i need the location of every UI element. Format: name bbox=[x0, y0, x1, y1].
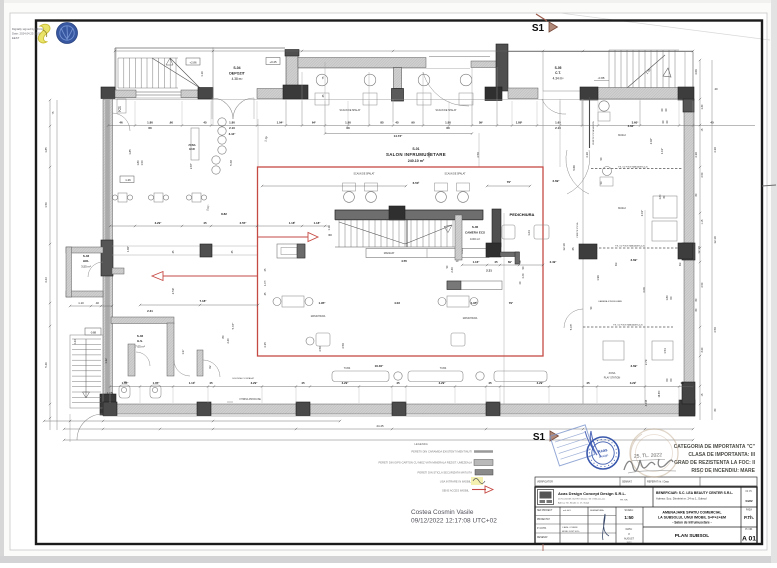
svg-text:4.50: 4.50 bbox=[713, 327, 717, 333]
svg-text:J17/xxx/2018; CUI RO 32xxxx; T: J17/xxx/2018; CUI RO 32xxxx; Tel: 0740-x… bbox=[558, 499, 606, 501]
svg-text:79°: 79° bbox=[509, 301, 514, 305]
svg-text:S-03: S-03 bbox=[83, 254, 90, 258]
svg-text:45: 45 bbox=[586, 381, 590, 385]
svg-text:1.80: 1.80 bbox=[229, 121, 235, 125]
svg-text:LA SUBSOLUL UNUI IMOBIL S+P+2+: LA SUBSOLUL UNUI IMOBIL S+P+2+EM bbox=[658, 516, 726, 520]
svg-text:RISC DE INCENDIU: MARE: RISC DE INCENDIU: MARE bbox=[691, 468, 755, 474]
svg-text:2.10: 2.10 bbox=[555, 126, 561, 130]
svg-text:4.50: 4.50 bbox=[341, 343, 345, 349]
svg-text:81¹: 81¹ bbox=[614, 262, 618, 266]
svg-text:PERETE STICLA MATUITA: PERETE STICLA MATUITA bbox=[592, 121, 595, 145]
svg-text:CATEGORIA DE IMPORTANTA "C": CATEGORIA DE IMPORTANTA "C" bbox=[674, 444, 756, 450]
svg-text:45: 45 bbox=[494, 260, 498, 264]
svg-text:+2.86: +2.86 bbox=[189, 61, 197, 65]
svg-text:SEMNAT.: SEMNAT. bbox=[622, 481, 633, 484]
svg-text:240.10 m²: 240.10 m² bbox=[408, 159, 425, 163]
svg-text:4.35: 4.35 bbox=[263, 342, 267, 348]
svg-text:P. COTR.: P. COTR. bbox=[537, 528, 547, 530]
svg-text:2.55°: 2.55° bbox=[240, 221, 248, 225]
svg-text:PERETII DIN CARAMIDA EXISTENTI: PERETII DIN CARAMIDA EXISTENTI MENTINUTI bbox=[411, 450, 472, 454]
svg-text:LEGENDA: LEGENDA bbox=[414, 442, 428, 446]
svg-text:2.31: 2.31 bbox=[147, 309, 153, 313]
svg-text:4.34 m²: 4.34 m² bbox=[553, 77, 564, 81]
svg-text:PROIECTAT: PROIECTAT bbox=[537, 518, 550, 521]
svg-text:4.03: 4.03 bbox=[394, 301, 400, 305]
svg-text:3.29¹: 3.29¹ bbox=[630, 381, 637, 385]
svg-text:04/22: 04/22 bbox=[746, 499, 753, 503]
svg-text:REFERAT Nr. / Data: REFERAT Nr. / Data bbox=[647, 481, 669, 484]
svg-text:2.67°: 2.67° bbox=[189, 163, 193, 169]
svg-text:USA INTRARE IN IMOBIL: USA INTRARE IN IMOBIL bbox=[440, 480, 472, 484]
svg-text:SCAUN DE SPALAT: SCAUN DE SPALAT bbox=[436, 109, 458, 112]
svg-text:1.13¹: 1.13¹ bbox=[189, 381, 196, 385]
svg-text:45: 45 bbox=[203, 221, 207, 225]
svg-text:1.05°: 1.05° bbox=[153, 381, 161, 385]
svg-text:45: 45 bbox=[488, 381, 492, 385]
svg-text:3.29°: 3.29° bbox=[439, 381, 447, 385]
svg-text:A 01: A 01 bbox=[742, 536, 756, 543]
svg-text:18.99¹: 18.99¹ bbox=[658, 390, 661, 397]
svg-text:S-01: S-01 bbox=[412, 147, 419, 151]
svg-text:SCAUN DE SPALAT: SCAUN DE SPALAT bbox=[354, 173, 376, 176]
svg-text:7.05 m²: 7.05 m² bbox=[135, 345, 145, 349]
svg-text:45: 45 bbox=[571, 247, 575, 250]
svg-text:Costea Cosmin Vasile: Costea Cosmin Vasile bbox=[411, 509, 474, 516]
svg-text:1.80: 1.80 bbox=[445, 121, 451, 125]
svg-text:CLASA DE IMPORTANTA: III: CLASA DE IMPORTANTA: III bbox=[688, 452, 755, 458]
svg-text:5.40: 5.40 bbox=[44, 362, 48, 368]
svg-text:14.72°: 14.72° bbox=[394, 134, 404, 138]
svg-text:- Salon de Infrumusetare -: - Salon de Infrumusetare - bbox=[672, 521, 711, 525]
svg-text:3.29°: 3.29° bbox=[251, 381, 259, 385]
svg-text:1.18¹: 1.18¹ bbox=[289, 221, 296, 225]
svg-text:VERIFICATOR: VERIFICATOR bbox=[537, 481, 553, 484]
svg-text:1.85: 1.85 bbox=[128, 149, 132, 155]
svg-text:12.10: 12.10 bbox=[713, 236, 717, 244]
svg-text:MASAJ: MASAJ bbox=[618, 134, 626, 137]
svg-text:1.10: 1.10 bbox=[200, 71, 204, 77]
svg-text:4.30: 4.30 bbox=[585, 152, 589, 158]
svg-text:SALON INFRUMUSETARE: SALON INFRUMUSETARE bbox=[386, 152, 446, 157]
svg-text:SCAUN DE SPALAT: SCAUN DE SPALAT bbox=[445, 173, 467, 176]
svg-text:7.18°: 7.18° bbox=[199, 299, 207, 303]
svg-text:45: 45 bbox=[209, 381, 213, 385]
svg-text:MASAJ: MASAJ bbox=[618, 207, 626, 210]
svg-text:PEDICHIURA: PEDICHIURA bbox=[510, 212, 535, 217]
svg-text:1.89¹: 1.89¹ bbox=[516, 121, 523, 125]
svg-text:1.80: 1.80 bbox=[659, 194, 662, 199]
svg-text:2.73¹: 2.73¹ bbox=[644, 359, 648, 365]
svg-text:3.29°: 3.29° bbox=[155, 221, 163, 225]
svg-text:45: 45 bbox=[395, 121, 399, 125]
svg-text:SEMNATURA: SEMNATURA bbox=[590, 509, 604, 512]
svg-text:S-04: S-04 bbox=[233, 66, 240, 70]
svg-text:12.10: 12.10 bbox=[562, 243, 566, 251]
svg-text:1.99: 1.99 bbox=[596, 275, 600, 281]
svg-text:G.S.: G.S. bbox=[137, 339, 143, 343]
svg-text:MAKEUP: MAKEUP bbox=[384, 252, 395, 255]
svg-text:3.44°: 3.44° bbox=[229, 132, 237, 136]
svg-text:1.04°: 1.04° bbox=[277, 121, 285, 125]
svg-text:AMENAJARE SPATIU COMERCIAL: AMENAJARE SPATIU COMERCIAL bbox=[662, 511, 722, 515]
svg-text:45: 45 bbox=[203, 121, 207, 125]
svg-text:5.68: 5.68 bbox=[572, 165, 576, 171]
svg-text:2.49°: 2.49° bbox=[550, 260, 558, 264]
svg-text:1.50: 1.50 bbox=[140, 160, 144, 166]
svg-text:2022: 2022 bbox=[627, 542, 633, 544]
svg-text:C.ARH. COSMIN: C.ARH. COSMIN bbox=[562, 526, 578, 529]
svg-text:2.06°: 2.06° bbox=[649, 138, 653, 145]
svg-text:45: 45 bbox=[301, 381, 305, 385]
svg-text:19: 19 bbox=[680, 381, 684, 385]
svg-text:79°: 79° bbox=[507, 180, 512, 184]
svg-text:16.30°: 16.30° bbox=[375, 364, 385, 368]
svg-text:4.55: 4.55 bbox=[401, 259, 407, 263]
svg-text:5.68: 5.68 bbox=[229, 160, 233, 166]
svg-text:60: 60 bbox=[346, 126, 350, 130]
svg-text:2.69°: 2.69° bbox=[552, 179, 560, 183]
svg-text:4.38 m²: 4.38 m² bbox=[232, 77, 243, 81]
svg-text:90: 90 bbox=[411, 121, 415, 125]
svg-text:Adresa: Soc. Dimitriei nr. 24: Adresa: Soc. Dimitriei nr. 24 sc 1, Subs… bbox=[656, 497, 707, 501]
svg-text:1.16°: 1.16° bbox=[473, 260, 481, 264]
svg-text:1.18°: 1.18° bbox=[314, 221, 322, 225]
svg-text:1.95°: 1.95° bbox=[318, 301, 326, 305]
svg-text:85: 85 bbox=[380, 121, 384, 125]
svg-text:46: 46 bbox=[119, 121, 123, 125]
svg-text:3.29°: 3.29° bbox=[342, 381, 350, 385]
svg-text:12.10: 12.10 bbox=[697, 246, 701, 254]
svg-text:60: 60 bbox=[148, 126, 152, 130]
svg-text:PERETE STICLA: PERETE STICLA bbox=[576, 222, 579, 237]
svg-text:1.32: 1.32 bbox=[104, 358, 108, 364]
svg-text:40: 40 bbox=[714, 87, 718, 91]
svg-text:TUNS: TUNS bbox=[440, 367, 447, 370]
svg-text:PERETI DIN GIPS-CARTON CU MIEZ: PERETI DIN GIPS-CARTON CU MIEZ VATA MINE… bbox=[378, 461, 472, 465]
svg-text:.40: .40 bbox=[95, 301, 99, 305]
svg-text:1.37: 1.37 bbox=[181, 349, 185, 355]
svg-text:3.29°: 3.29° bbox=[537, 381, 545, 385]
svg-text:3.09: 3.09 bbox=[642, 287, 646, 293]
svg-text:IN: IN bbox=[329, 233, 332, 237]
svg-text:P.S. CU FOLIE SABLATA H=2.20: P.S. CU FOLIE SABLATA H=2.20 bbox=[613, 324, 643, 327]
svg-text:81¹: 81¹ bbox=[678, 262, 682, 266]
svg-text:Adresa: Str. Brailei nr. 17, G: Adresa: Str. Brailei nr. 17, Galati bbox=[558, 502, 590, 505]
svg-text:PLAN SUBSOL: PLAN SUBSOL bbox=[675, 533, 709, 539]
svg-text:4.30: 4.30 bbox=[713, 147, 717, 153]
svg-text:S-06: S-06 bbox=[472, 225, 479, 229]
svg-text:P.S. CU FOLIE SABLATA H=2.20: P.S. CU FOLIE SABLATA H=2.20 bbox=[615, 245, 645, 248]
svg-text:4.015: 4.015 bbox=[644, 399, 648, 406]
svg-text:-0.88: -0.88 bbox=[598, 76, 605, 80]
svg-text:3.23: 3.23 bbox=[44, 277, 48, 283]
svg-text:arh. A.V.: arh. A.V. bbox=[563, 509, 572, 512]
svg-text:S1: S1 bbox=[532, 23, 545, 34]
svg-text:4.09: 4.09 bbox=[694, 69, 698, 75]
svg-text:HOL: HOL bbox=[83, 259, 90, 263]
svg-text:1.84°: 1.84° bbox=[126, 246, 130, 252]
svg-text:1:50: 1:50 bbox=[624, 515, 634, 520]
svg-text:3,55 m²: 3,55 m² bbox=[81, 265, 91, 269]
svg-text:KS: KS bbox=[117, 106, 122, 112]
svg-text:P.Th.: P.Th. bbox=[744, 515, 754, 520]
svg-text:DATA:: DATA: bbox=[626, 528, 633, 531]
svg-text:MOBIL DUST S.R.L.: MOBIL DUST S.R.L. bbox=[562, 531, 581, 533]
svg-text:CAMERA ECS: CAMERA ECS bbox=[465, 231, 485, 235]
svg-text:2.50: 2.50 bbox=[701, 172, 704, 177]
svg-text:1.54: 1.54 bbox=[663, 348, 667, 354]
svg-text:4.50: 4.50 bbox=[318, 346, 322, 352]
svg-text:3.60°: 3.60° bbox=[628, 124, 636, 128]
svg-text:1.61°: 1.61° bbox=[660, 148, 664, 155]
svg-text:CAMERA STERILIZARE: CAMERA STERILIZARE bbox=[598, 300, 622, 303]
svg-text:MANICHIURA: MANICHIURA bbox=[463, 317, 478, 320]
svg-text:+0.45: +0.45 bbox=[269, 60, 277, 64]
svg-text:1.65: 1.65 bbox=[555, 121, 561, 125]
svg-text:OGLINDA CU SPALAT: OGLINDA CU SPALAT bbox=[232, 377, 255, 380]
svg-text:PLAY STATION: PLAY STATION bbox=[604, 377, 621, 380]
svg-text:EEST: EEST bbox=[12, 36, 20, 40]
svg-text:45: 45 bbox=[396, 381, 400, 385]
svg-text:2.31: 2.31 bbox=[486, 269, 492, 273]
svg-text:1.80: 1.80 bbox=[147, 121, 153, 125]
svg-text:1.15: 1.15 bbox=[701, 219, 704, 224]
svg-text:2.53¹: 2.53¹ bbox=[171, 288, 175, 294]
svg-text:2.50: 2.50 bbox=[701, 282, 704, 287]
svg-text:4.30: 4.30 bbox=[427, 152, 431, 158]
svg-text:Acas Design Concept Design S.R: Acas Design Concept Design S.R.L. bbox=[558, 491, 626, 496]
svg-text:BENEFICIAR: S.C. LEA BEAUTY CE: BENEFICIAR: S.C. LEA BEAUTY CENTER S.R.L… bbox=[656, 491, 733, 495]
svg-text:8.82: 8.82 bbox=[221, 212, 227, 216]
svg-text:60: 60 bbox=[446, 126, 450, 130]
svg-text:1.80: 1.80 bbox=[345, 121, 351, 125]
svg-text:SENS ACCES IMOBIL: SENS ACCES IMOBIL bbox=[442, 489, 470, 493]
svg-text:PERETI DIN STICLA SECURIZATA M: PERETI DIN STICLA SECURIZATA MATUITA bbox=[418, 471, 473, 475]
svg-text:3.69°: 3.69° bbox=[630, 364, 638, 368]
svg-text:6.50¹: 6.50¹ bbox=[413, 181, 420, 185]
svg-text:1.50: 1.50 bbox=[44, 202, 48, 208]
svg-text:BAR: BAR bbox=[189, 147, 195, 151]
svg-text:4.30: 4.30 bbox=[694, 152, 698, 158]
svg-text:Digitally signed by NICULAE: Digitally signed by NICULAE bbox=[12, 27, 48, 31]
svg-text:PR. NR.: PR. NR. bbox=[620, 500, 628, 502]
svg-text:C.T.: C.T. bbox=[555, 71, 561, 75]
svg-text:1.80: 1.80 bbox=[136, 160, 140, 166]
svg-text:4.60 m²: 4.60 m² bbox=[470, 237, 480, 241]
svg-text:3.20: 3.20 bbox=[701, 347, 704, 352]
svg-text:5.67¹: 5.67¹ bbox=[569, 324, 573, 330]
svg-text:P.S. CU FOLIE SABLATA H=2.20: P.S. CU FOLIE SABLATA H=2.20 bbox=[618, 166, 648, 169]
svg-text:S1: S1 bbox=[533, 432, 546, 443]
svg-text:-0.88: -0.88 bbox=[90, 331, 97, 335]
svg-text:1.05°: 1.05° bbox=[122, 381, 130, 385]
svg-text:09/12/2022 12:17:08 UTC+02: 09/12/2022 12:17:08 UTC+02 bbox=[411, 518, 497, 525]
svg-text:1.10: 1.10 bbox=[327, 225, 331, 231]
svg-text:3.23: 3.23 bbox=[73, 339, 77, 345]
svg-text:2.10: 2.10 bbox=[229, 126, 235, 130]
svg-text:1.30: 1.30 bbox=[701, 104, 704, 109]
svg-text:Nr. Pr.: Nr. Pr. bbox=[746, 490, 753, 493]
svg-text:Pl. NR.: Pl. NR. bbox=[745, 528, 753, 531]
svg-text:S-05: S-05 bbox=[555, 66, 562, 70]
svg-text:1.07¹: 1.07¹ bbox=[264, 280, 267, 286]
svg-text:TUNS: TUNS bbox=[344, 367, 351, 370]
svg-text:1.64: 1.64 bbox=[527, 230, 531, 236]
svg-text:MANICHIURA: MANICHIURA bbox=[311, 315, 326, 318]
svg-text:SEF PROIECT: SEF PROIECT bbox=[537, 510, 553, 512]
svg-text:.60: .60 bbox=[169, 121, 173, 125]
svg-text:AUGUST: AUGUST bbox=[624, 538, 635, 541]
svg-text:ZONA: ZONA bbox=[188, 143, 195, 147]
svg-text:4.50: 4.50 bbox=[476, 152, 480, 158]
svg-text:1.26: 1.26 bbox=[125, 178, 131, 182]
svg-text:VITRINA PRODUSE: VITRINA PRODUSE bbox=[239, 398, 261, 401]
svg-text:FAZA: FAZA bbox=[746, 509, 752, 512]
svg-text:5.67°: 5.67° bbox=[231, 323, 235, 330]
svg-text:SCAUN DE SPALAT: SCAUN DE SPALAT bbox=[340, 109, 362, 112]
svg-text:2.40: 2.40 bbox=[226, 338, 230, 344]
svg-text:DEPOZIT: DEPOZIT bbox=[229, 72, 245, 76]
svg-text:2.40: 2.40 bbox=[450, 267, 454, 273]
svg-text:ZONA: ZONA bbox=[609, 372, 616, 375]
svg-text:S-02: S-02 bbox=[137, 334, 144, 338]
svg-text:2.40: 2.40 bbox=[522, 273, 525, 278]
svg-text:DESENAT: DESENAT bbox=[537, 536, 548, 539]
svg-text:SCARA:: SCARA: bbox=[625, 509, 634, 512]
svg-text:24.45: 24.45 bbox=[377, 424, 384, 428]
svg-text:1.85: 1.85 bbox=[44, 147, 48, 153]
svg-text:3.01°: 3.01° bbox=[640, 210, 644, 217]
svg-text:GRAD DE REZISTENTA LA FOC: II: GRAD DE REZISTENTA LA FOC: II bbox=[674, 460, 756, 466]
svg-text:3.69°: 3.69° bbox=[630, 258, 638, 262]
svg-text:1.80: 1.80 bbox=[665, 295, 669, 301]
svg-text:1.10: 1.10 bbox=[78, 301, 84, 305]
